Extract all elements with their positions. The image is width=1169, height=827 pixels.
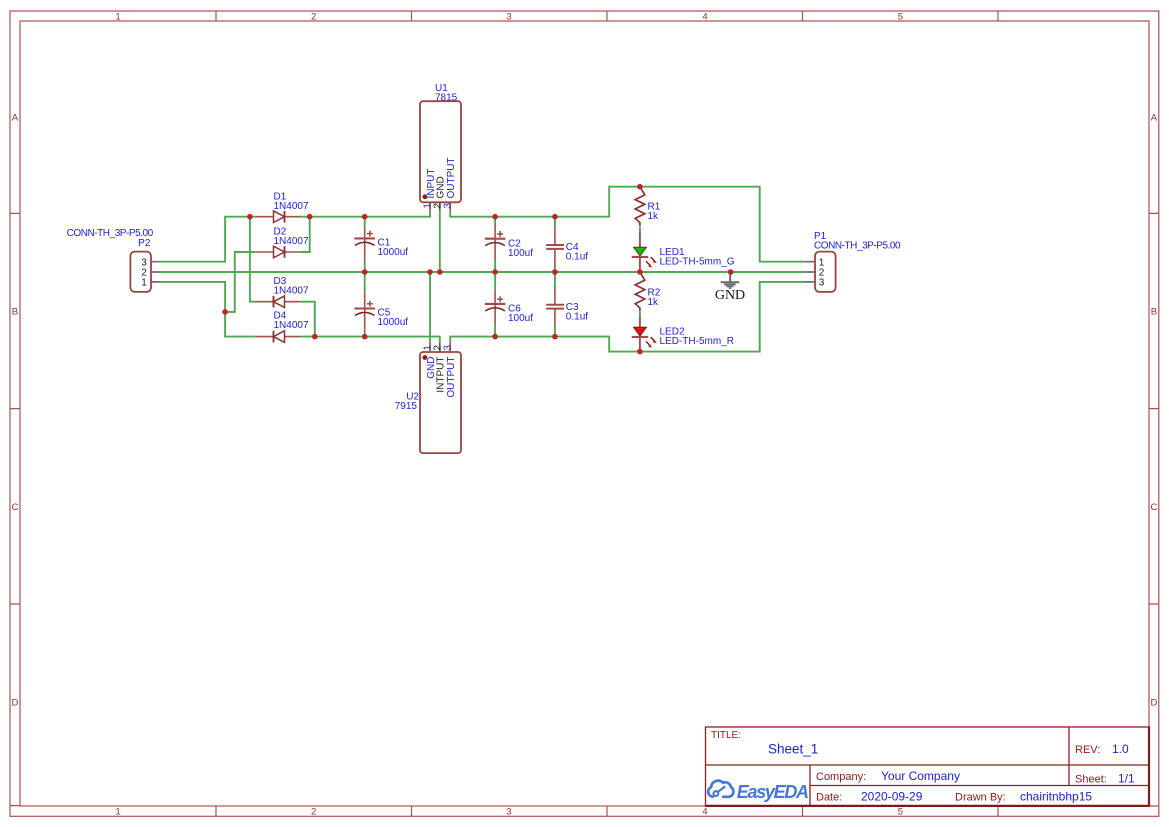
wire net VIN+ branch from D2 cathode	[300, 217, 309, 252]
svg-text:Your Company: Your Company	[881, 769, 960, 783]
LED2 LED-TH-5mm_R red	[632, 317, 734, 352]
capacitor C3 0.1uf	[546, 287, 588, 326]
svg-text:1: 1	[141, 278, 147, 289]
junction dot at R1 top	[637, 184, 643, 190]
wire net AC1 from P2 pin 3 to D1 anode	[160, 217, 256, 262]
svg-text:CONN-TH_3P-P5.00: CONN-TH_3P-P5.00	[814, 241, 901, 252]
svg-text:4: 4	[702, 807, 707, 818]
svg-text:TITLE:: TITLE:	[711, 730, 741, 741]
svg-text:0.1uf: 0.1uf	[566, 311, 588, 322]
svg-text:OUTPUT: OUTPUT	[446, 157, 457, 198]
wire C5 bottom stub	[364, 332, 366, 337]
svg-text:1k: 1k	[648, 211, 660, 222]
svg-text:1N4007: 1N4007	[274, 286, 309, 297]
junction dot bottom rail at C5	[362, 334, 368, 340]
svg-text:100uf: 100uf	[508, 313, 533, 324]
junction dot top rail at C2	[492, 214, 498, 220]
junction dot top rail at D1 anode	[247, 214, 253, 220]
LED1 LED-TH-5mm_G green	[632, 232, 735, 272]
resistor R2 1k	[635, 272, 661, 312]
svg-text:1N4007: 1N4007	[274, 236, 309, 247]
svg-text:GND: GND	[436, 176, 447, 198]
junction dot GND rail at LED1	[637, 269, 643, 275]
capacitor C1 1000uf	[354, 227, 408, 262]
svg-text:3: 3	[443, 345, 454, 351]
svg-text:1.0: 1.0	[1112, 742, 1129, 756]
EasyEDA logo	[708, 781, 808, 802]
connector P2	[67, 228, 160, 292]
regulator U1 7815	[420, 83, 461, 211]
svg-text:Company:: Company:	[816, 771, 866, 783]
wire C1 top stub	[364, 217, 366, 227]
svg-text:chairitnbhp15: chairitnbhp15	[1020, 789, 1092, 803]
wire C1 bottom stub	[364, 262, 366, 272]
svg-text:B: B	[1151, 307, 1157, 318]
wire net AC2 from P2 pin 1 to D4 cathode	[160, 282, 256, 337]
wire R2 to LED2	[639, 312, 641, 317]
connector P1	[806, 231, 901, 292]
svg-text:LED-TH-5mm_G: LED-TH-5mm_G	[660, 257, 735, 268]
wire C6 top stub	[494, 272, 496, 289]
wire net VIN- from D3 anode	[300, 302, 314, 337]
diode D3 1N4007	[256, 276, 309, 307]
svg-text:EasyEDA: EasyEDA	[737, 782, 808, 802]
wire C2 bottom stub	[494, 261, 496, 272]
svg-text:D: D	[1150, 697, 1157, 708]
svg-text:LED-TH-5mm_R: LED-TH-5mm_R	[660, 336, 734, 347]
svg-text:C: C	[11, 502, 18, 513]
wire C3 top stub	[554, 272, 556, 288]
capacitor C6 100uf	[485, 289, 533, 326]
svg-text:2: 2	[311, 12, 316, 23]
wire C4 top stub	[554, 217, 556, 228]
junction dot at LED2 bottom	[637, 349, 643, 355]
title block	[706, 726, 1150, 806]
svg-text:3: 3	[443, 203, 454, 209]
svg-text:0.1uf: 0.1uf	[566, 252, 588, 263]
svg-text:1000uf: 1000uf	[378, 247, 409, 258]
junction dot bottom rail at D4 anode	[312, 334, 318, 340]
diode D1 1N4007	[256, 192, 309, 223]
svg-text:2: 2	[432, 345, 443, 351]
junction dot GND rail at U2 pin 1	[427, 269, 433, 275]
junction dot bottom rail at C3	[552, 334, 558, 340]
svg-text:Drawn By:: Drawn By:	[955, 791, 1006, 803]
svg-text:4: 4	[702, 12, 707, 23]
wire R1 to LED1	[639, 227, 641, 232]
svg-text:3: 3	[819, 278, 825, 289]
capacitor C4 0.1uf	[546, 227, 588, 266]
regulator U2 7915	[395, 343, 461, 454]
wire net VIN+ top rail D1 cathode to U1 pin 1	[300, 211, 430, 217]
junction dot GND rail at U1 pin 2	[437, 269, 443, 275]
svg-text:GND: GND	[715, 288, 745, 303]
svg-text:7815: 7815	[435, 93, 458, 104]
svg-text:2: 2	[311, 807, 316, 818]
wire C6 bottom stub	[494, 326, 496, 336]
svg-text:2: 2	[432, 203, 443, 209]
wire C5 top stub	[364, 272, 366, 292]
junction dot AC2 corner	[222, 309, 228, 315]
wire C4 bottom stub	[554, 265, 556, 272]
svg-text:1N4007: 1N4007	[274, 201, 309, 212]
svg-text:1: 1	[115, 807, 120, 818]
svg-text:D: D	[11, 697, 18, 708]
svg-text:Date:: Date:	[816, 791, 842, 803]
svg-text:A: A	[1151, 113, 1158, 124]
svg-text:1N4007: 1N4007	[274, 320, 309, 331]
junction dot bottom rail at C6	[492, 334, 498, 340]
svg-text:INTPUT: INTPUT	[436, 357, 447, 393]
junction dot top rail at C1	[362, 214, 368, 220]
wire C2 top stub	[494, 217, 496, 223]
svg-text:A: A	[12, 113, 19, 124]
junction dot GND rail at ground symbol	[728, 269, 734, 275]
svg-text:REV:: REV:	[1075, 744, 1100, 756]
svg-text:1: 1	[115, 12, 120, 23]
svg-text:7915: 7915	[395, 401, 418, 412]
resistor R1 1k	[635, 187, 661, 227]
svg-text:OUTPUT: OUTPUT	[446, 357, 457, 398]
svg-text:1k: 1k	[648, 297, 660, 308]
svg-text:Sheet_1: Sheet_1	[768, 742, 818, 757]
capacitor C5 1000uf	[354, 292, 408, 332]
diode D2 1N4007	[256, 226, 309, 257]
wire C3 bottom stub	[554, 326, 556, 337]
wire U1 pin 2 to GND rail	[439, 211, 441, 272]
svg-text:Sheet:: Sheet:	[1075, 774, 1107, 786]
wire GND rail to U2 pin 1	[429, 272, 431, 343]
svg-text:3: 3	[506, 12, 511, 23]
svg-text:2020-09-29: 2020-09-29	[861, 789, 923, 803]
capacitor C2 100uf	[485, 222, 533, 261]
svg-text:100uf: 100uf	[508, 248, 533, 259]
svg-text:5: 5	[898, 807, 903, 818]
wire net +15V U1 pin 3 to P1 pin 1	[450, 187, 805, 262]
svg-text:5: 5	[898, 12, 903, 23]
svg-text:3: 3	[506, 807, 511, 818]
svg-text:P2: P2	[138, 238, 151, 249]
wire net AC1 branch to D3 cathode	[250, 217, 256, 302]
junction dot top rail at C4	[552, 214, 558, 220]
svg-text:1/1: 1/1	[1118, 772, 1135, 786]
junction dot GND rail at C2	[492, 269, 498, 275]
junction dot GND rail at C1	[362, 269, 368, 275]
wire net GND middle rail P2 pin 2 to P1 pin 2	[160, 271, 806, 273]
junction dot top rail at D1 cathode	[307, 214, 313, 220]
junction dot GND rail at C4	[552, 269, 558, 275]
diode D4 1N4007	[256, 311, 309, 343]
svg-text:C: C	[1150, 502, 1157, 513]
ground symbol GND	[715, 272, 745, 303]
wire net VIN- bottom rail D4 anode to U2 pin 2	[300, 337, 439, 343]
wire net -15V U2 pin 3 to P1 pin 3	[450, 282, 805, 352]
svg-text:1000uf: 1000uf	[378, 317, 409, 328]
svg-text:B: B	[12, 307, 18, 318]
wire net AC2 branch to D2 anode	[225, 252, 256, 312]
